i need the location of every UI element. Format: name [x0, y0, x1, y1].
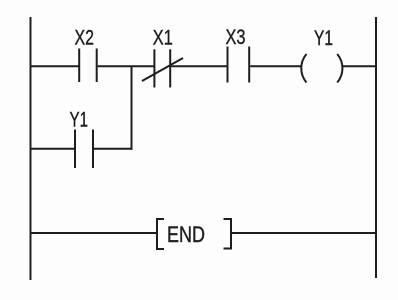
svg-text:X1: X1 — [153, 26, 173, 50]
wire branch horizontal right — [94, 148, 133, 150]
wire rung1 seg5 — [343, 65, 377, 67]
wire rung1 seg2 — [98, 65, 154, 67]
svg-text:X2: X2 — [75, 26, 95, 50]
wire branch horizontal left — [31, 148, 74, 150]
svg-text:END: END — [167, 222, 205, 247]
svg-text:X3: X3 — [226, 25, 246, 49]
contact X3 — [228, 47, 250, 83]
wire rung1 seg3 — [171, 65, 226, 67]
svg-text:Y1: Y1 — [70, 108, 89, 132]
END left bracket — [157, 219, 164, 249]
wire rung1 seg1 — [31, 65, 79, 67]
wire rung1 seg4 — [250, 65, 302, 67]
wire rung2 left — [31, 232, 156, 234]
contact X1 (normally closed) — [142, 49, 183, 87]
wire branch riser — [131, 66, 133, 150]
left power rail — [30, 17, 32, 280]
wire rung2 right — [232, 232, 376, 234]
contact X2 — [79, 49, 97, 83]
svg-text:Y1: Y1 — [314, 26, 333, 50]
coil Y1 — [301, 54, 342, 83]
right power rail — [375, 17, 377, 278]
contact Y1 (branch) — [75, 130, 93, 169]
END right bracket — [224, 219, 232, 249]
